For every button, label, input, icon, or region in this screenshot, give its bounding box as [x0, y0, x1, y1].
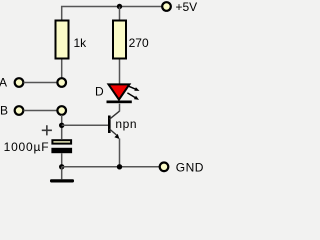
transistor Q1 npn: [109, 111, 119, 139]
LED light arrow 1: [129, 86, 140, 91]
wire A to node: [24, 82, 58, 84]
value label 1k: [74, 36, 88, 50]
terminal B: [15, 106, 24, 115]
terminal A: [15, 78, 24, 87]
node B pin: [57, 106, 66, 115]
LED light arrow 2: [127, 93, 139, 100]
wire junction to ground symbol: [61, 167, 63, 179]
wire from top rail down to 270 resistor: [119, 7, 121, 20]
svg-text:npn: npn: [115, 117, 137, 131]
label B: [0, 104, 8, 118]
label A: [0, 76, 7, 90]
svg-text:D: D: [95, 84, 104, 98]
value label 270: [129, 36, 149, 50]
label npn: [115, 117, 137, 131]
node junction top: [117, 4, 122, 9]
junction ground left: [59, 164, 64, 169]
polarity plus sign: [42, 125, 52, 135]
wire R2 bottom to LED: [119, 60, 121, 85]
svg-text:270: 270: [129, 36, 149, 50]
resistor R2 270: [113, 21, 126, 59]
ground: [50, 179, 74, 182]
wire LED cathode to collector: [119, 104, 121, 112]
junction emitter node: [117, 164, 122, 169]
svg-text:+5V: +5V: [176, 0, 198, 14]
terminal +5V: [162, 2, 171, 11]
svg-text:1k: 1k: [74, 36, 88, 50]
resistor R1 1k: [56, 21, 69, 59]
svg-text:1000µF: 1000µF: [4, 140, 50, 154]
junction base node: [59, 123, 64, 128]
wire node B down to base junction: [61, 115, 63, 139]
terminal GND: [160, 163, 169, 172]
label +5V: [176, 0, 198, 14]
label D: [95, 84, 104, 98]
LED D (red): [107, 84, 132, 103]
value label 1000uF: [4, 140, 50, 154]
wire B to node: [24, 110, 58, 112]
wire R1 bottom to node A: [61, 60, 63, 79]
svg-text:GND: GND: [176, 161, 204, 175]
svg-text:B: B: [0, 104, 8, 118]
node A pin: [57, 78, 66, 87]
wire top rail to +5V: [62, 7, 162, 20]
capacitor C1 1000uF: [51, 140, 72, 153]
label GND: [176, 161, 204, 175]
wire base junction to transistor base: [62, 124, 108, 126]
svg-text:A: A: [0, 76, 7, 90]
wire capacitor to ground junction: [61, 153, 63, 167]
bottom rail wire: [62, 166, 160, 168]
wire emitter down to bottom rail: [119, 139, 121, 167]
